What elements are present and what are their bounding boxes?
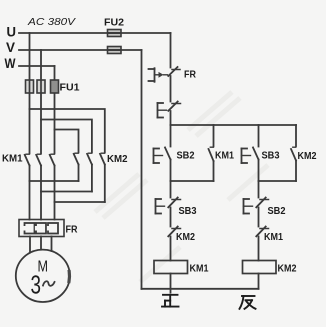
contactor KM2 pole3 contact bbox=[100, 153, 105, 164]
wire jumper V to KM2 pole2 bbox=[41, 120, 92, 153]
wire KM1 pole3 out bbox=[54, 166, 56, 220]
label KM2 bbox=[298, 151, 317, 162]
wire branch bus bbox=[171, 124, 297, 126]
label KM2 bbox=[107, 154, 128, 165]
svg-text:KM2: KM2 bbox=[176, 232, 195, 243]
wire control main drop bbox=[170, 33, 172, 68]
wire join rev pair bbox=[259, 180, 297, 182]
label SB3 bbox=[262, 151, 280, 162]
thermal relay FR heater2 bbox=[35, 223, 46, 234]
pushbutton SB3 (NC interlock fwd) bbox=[156, 198, 181, 214]
wire join fwd pair bbox=[171, 180, 214, 182]
label KM1 bbox=[190, 264, 209, 275]
label zheng (forward) bbox=[162, 295, 179, 307]
label M bbox=[38, 259, 49, 276]
wire KM1 coil to rail bbox=[170, 274, 172, 293]
svg-text:3: 3 bbox=[31, 270, 42, 300]
wire KM1 pole2 out bbox=[40, 166, 42, 220]
label FU1 bbox=[60, 83, 80, 94]
svg-text:KM2: KM2 bbox=[278, 264, 297, 275]
label fan (reverse) bbox=[240, 296, 256, 309]
wire motor lead2 bbox=[40, 237, 42, 250]
wire bottom rail bbox=[142, 288, 259, 290]
wire KM2 pole1 out bbox=[78, 165, 80, 182]
contact KM2 NC interlock bbox=[168, 227, 180, 237]
label AC 380V bbox=[27, 16, 76, 28]
wire drop phase V bbox=[40, 50, 42, 154]
wire SB1 to bus bbox=[170, 111, 172, 125]
wire KM2 aux out bbox=[295, 161, 297, 182]
svg-text:SB3: SB3 bbox=[262, 151, 280, 162]
svg-text:KM1: KM1 bbox=[215, 151, 234, 162]
label FU2 bbox=[104, 18, 124, 29]
label U bbox=[7, 24, 17, 40]
wire SB3 out bbox=[258, 160, 260, 182]
wire join pole1 bbox=[30, 180, 79, 182]
contactor KM2 pole2 contact bbox=[87, 153, 92, 164]
contact KM1 aux NO bbox=[209, 147, 214, 161]
label SB2 bbox=[177, 151, 195, 162]
svg-text:AC 380V: AC 380V bbox=[27, 16, 76, 28]
wire motor lead3 bbox=[51, 237, 53, 252]
label KM2 bbox=[176, 232, 195, 243]
svg-text:FR: FR bbox=[66, 225, 79, 236]
contactor KM1 pole3 contact bbox=[50, 154, 55, 165]
wire KM1 aux out bbox=[213, 161, 215, 181]
wire KM2 coil to rail bbox=[258, 274, 260, 289]
label FR bbox=[184, 70, 197, 81]
wire branch3 drop bbox=[258, 125, 260, 147]
coil KM1 bbox=[154, 261, 188, 274]
svg-text:KM1: KM1 bbox=[2, 154, 23, 165]
contactor KM1 pole1 contact bbox=[25, 154, 30, 165]
label SB3 bbox=[179, 206, 197, 217]
fuse FU1c bbox=[51, 80, 59, 93]
svg-text:FU2: FU2 bbox=[104, 18, 124, 29]
wire motor lead1 bbox=[29, 237, 31, 253]
svg-text:FR: FR bbox=[184, 70, 197, 81]
wire fwd branch down3 bbox=[170, 237, 172, 261]
wire drop phase U bbox=[29, 33, 31, 154]
svg-text:SB2: SB2 bbox=[177, 151, 195, 162]
pushbutton SB2 (NC interlock rev) bbox=[244, 198, 269, 214]
contactor KM1 pole2 contact bbox=[36, 154, 41, 165]
wire KM2 pole3 out bbox=[104, 165, 106, 203]
wire V phase bbox=[19, 49, 142, 51]
label KM2 bbox=[278, 264, 297, 275]
svg-text:KM2: KM2 bbox=[107, 154, 128, 165]
svg-text:KM1: KM1 bbox=[264, 232, 283, 243]
svg-text:SB2: SB2 bbox=[268, 206, 286, 217]
wire KM1 pole1 out bbox=[29, 166, 31, 220]
label FR bbox=[66, 225, 79, 236]
thermal relay FR heater1 bbox=[23, 223, 34, 234]
svg-text:FU1: FU1 bbox=[60, 83, 80, 94]
wire U phase bbox=[19, 32, 171, 34]
contactor KM2 pole1 contact bbox=[74, 153, 79, 164]
thermal contact FR (NC) bbox=[149, 67, 181, 82]
wire join pole2 bbox=[41, 191, 92, 193]
thermal relay FR box bbox=[19, 220, 64, 237]
motor M circle bbox=[16, 250, 70, 302]
wire W phase bbox=[19, 65, 55, 67]
fuse FU1a bbox=[26, 80, 34, 93]
svg-text:W: W bbox=[5, 55, 17, 71]
label SB2 bbox=[268, 206, 286, 217]
wire KM2 pole2 out bbox=[91, 165, 93, 192]
wire FR to SB1 bbox=[170, 76, 172, 102]
wire rev branch down1 bbox=[258, 181, 260, 198]
pushbutton SB3 (NO start rev) bbox=[242, 148, 259, 164]
fuse FU1b bbox=[37, 80, 45, 93]
svg-text:V: V bbox=[6, 39, 16, 55]
wire join pole3 bbox=[55, 201, 105, 203]
wire fwd branch down1 bbox=[170, 181, 172, 198]
svg-text:KM1: KM1 bbox=[190, 264, 209, 275]
wire SB2 out bbox=[170, 160, 172, 182]
wire jumper U to KM2 pole3 bbox=[30, 109, 105, 153]
fuse FU2b bbox=[108, 47, 122, 54]
contact KM1 NC interlock bbox=[256, 227, 268, 237]
fuse FU2a bbox=[108, 30, 122, 37]
label V bbox=[6, 39, 16, 55]
label tilde bbox=[43, 281, 55, 286]
wire fwd branch down2 bbox=[170, 208, 172, 227]
label KM1 bbox=[264, 232, 283, 243]
wire branch2 drop bbox=[213, 125, 215, 147]
label 3 bbox=[31, 270, 42, 300]
label KM1 bbox=[2, 154, 23, 165]
label W bbox=[5, 55, 17, 71]
wire control left rail bbox=[141, 50, 143, 289]
wire drop phase W bbox=[54, 66, 56, 154]
pushbutton SB2 (NO start fwd) bbox=[154, 148, 171, 164]
contact KM2 aux NO bbox=[291, 147, 296, 160]
label KM1 bbox=[215, 151, 234, 162]
wire rev branch down2 bbox=[258, 208, 260, 227]
wire rev branch down3 bbox=[258, 237, 260, 261]
wire branch1 drop bbox=[170, 125, 172, 147]
pushbutton SB1 (NC stop) bbox=[158, 102, 181, 118]
thermal relay FR heater3 bbox=[47, 223, 58, 234]
wire branch4 drop bbox=[295, 125, 297, 146]
wire jumper W to KM2 pole1 bbox=[55, 130, 79, 153]
svg-text:U: U bbox=[7, 24, 17, 40]
svg-text:SB3: SB3 bbox=[179, 206, 197, 217]
svg-text:KM2: KM2 bbox=[298, 151, 317, 162]
coil KM2 bbox=[243, 261, 277, 274]
